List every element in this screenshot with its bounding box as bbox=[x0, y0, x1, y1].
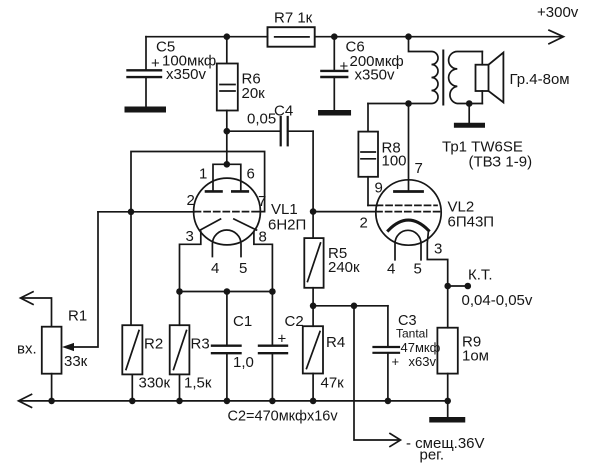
svg-text:вх.: вх. bbox=[17, 341, 37, 358]
svg-text:33к: 33к bbox=[64, 353, 88, 370]
ground bbox=[447, 401, 449, 417]
svg-text:9: 9 bbox=[375, 180, 383, 197]
svg-text:4: 4 bbox=[387, 261, 395, 278]
node C4 junction bbox=[224, 128, 231, 135]
resistor R7 bbox=[268, 27, 315, 47]
svg-text:К.Т.: К.Т. bbox=[468, 267, 493, 284]
transformer Tr1 primary bbox=[409, 37, 439, 104]
svg-text:2: 2 bbox=[360, 215, 368, 232]
svg-text:7: 7 bbox=[258, 193, 266, 210]
svg-text:2: 2 bbox=[187, 192, 195, 209]
capacitor C2 bbox=[271, 292, 273, 346]
svg-text:1ом: 1ом bbox=[462, 348, 489, 365]
capacitor C1 bbox=[226, 292, 228, 346]
resistor R3 bbox=[179, 292, 181, 326]
svg-text:+300v: +300v bbox=[537, 4, 579, 21]
svg-text:R7 1к: R7 1к bbox=[274, 10, 313, 27]
svg-text:1,5к: 1,5к bbox=[184, 375, 212, 392]
svg-text:47к: 47к bbox=[321, 375, 345, 392]
svg-text:+: + bbox=[151, 55, 160, 72]
wire speaker top bbox=[481, 52, 483, 65]
capacitor C6 bbox=[331, 33, 338, 40]
svg-text:R1: R1 bbox=[68, 308, 87, 325]
potentiometer R1 bbox=[42, 327, 62, 374]
svg-text:(ТВЗ 1-9): (ТВЗ 1-9) bbox=[469, 154, 533, 171]
node arrow +300v bbox=[549, 30, 564, 44]
svg-text:20к: 20к bbox=[242, 85, 266, 102]
wire bias rail bbox=[313, 305, 388, 307]
svg-text:100: 100 bbox=[382, 153, 407, 170]
capacitor C3 bbox=[387, 306, 389, 347]
speaker Гр bbox=[476, 65, 489, 91]
wire VL1 cathode pin 8 bbox=[254, 232, 273, 292]
svg-text:рег.: рег. bbox=[420, 447, 445, 464]
svg-text:6П43П: 6П43П bbox=[448, 214, 495, 231]
wire speaker bottom bbox=[481, 91, 483, 104]
tube VL1 envelope bbox=[194, 178, 261, 245]
ground bbox=[128, 107, 164, 113]
resistor R9 bbox=[447, 286, 449, 328]
svg-text:1: 1 bbox=[199, 166, 207, 183]
resistor R6 bbox=[224, 33, 231, 40]
svg-text:R4: R4 bbox=[326, 334, 345, 351]
capacitor C4 bbox=[227, 130, 280, 132]
svg-text:C2=470мкфх16v: C2=470мкфх16v bbox=[228, 409, 339, 425]
node K.T. test point bbox=[448, 285, 468, 287]
tube VL1 grid (dashed) bbox=[195, 211, 260, 213]
ground bbox=[456, 123, 482, 128]
tube VL1 cathodes bbox=[200, 219, 220, 230]
wire grid node down to R1 wiper bbox=[68, 212, 98, 347]
svg-text:R3: R3 bbox=[191, 336, 210, 353]
svg-text:1,0: 1,0 bbox=[233, 354, 254, 371]
svg-text:240к: 240к bbox=[328, 259, 360, 276]
wire input arrow top bbox=[22, 298, 52, 327]
ground bbox=[321, 110, 349, 116]
svg-text:5: 5 bbox=[239, 260, 247, 277]
tube VL1 anode bracket pins 1,6 bbox=[213, 164, 241, 190]
svg-text:4: 4 bbox=[211, 260, 219, 277]
resistor R4 bbox=[312, 306, 314, 326]
svg-text:5: 5 bbox=[414, 261, 422, 278]
node junction primary/anode bbox=[405, 33, 412, 40]
svg-text:+: + bbox=[278, 331, 287, 348]
svg-text:+: + bbox=[392, 354, 400, 369]
svg-text:х350v: х350v bbox=[355, 67, 396, 84]
tube VL2 envelope bbox=[376, 180, 441, 245]
wire cathode rail bbox=[180, 291, 273, 293]
node wiper arrow bbox=[62, 343, 74, 351]
svg-text:Гр.4-8ом: Гр.4-8ом bbox=[510, 71, 570, 88]
svg-text:R2: R2 bbox=[144, 336, 163, 353]
svg-text:C1: C1 bbox=[233, 313, 252, 330]
svg-text:х350v: х350v bbox=[166, 66, 207, 83]
wire C4 to VL2 grid bbox=[312, 131, 314, 211]
tube VL2 screen grid (pin 9) bbox=[377, 204, 438, 206]
tube VL2 cathode bbox=[388, 220, 428, 230]
svg-text:VL1: VL1 bbox=[271, 201, 298, 218]
transformer core bbox=[442, 51, 444, 105]
svg-text:7: 7 bbox=[415, 160, 423, 177]
svg-text:6: 6 bbox=[247, 166, 255, 183]
svg-text:47мкф: 47мкф bbox=[401, 340, 441, 355]
tube VL2 control grid (pin 2) bbox=[376, 211, 440, 213]
tube VL1 heater pins 4,5 bbox=[212, 230, 241, 257]
svg-text:3: 3 bbox=[186, 228, 194, 245]
capacitor C5 bbox=[145, 37, 147, 71]
wire bottom ground rail bbox=[20, 400, 448, 402]
node secondary ground junction bbox=[466, 100, 473, 107]
svg-text:C4: C4 bbox=[274, 103, 293, 120]
wire VL2 cathode pin 3 to K.T. bbox=[427, 230, 447, 286]
transformer Tr1 secondary bbox=[449, 52, 483, 104]
svg-text:Tantal: Tantal bbox=[396, 327, 428, 341]
wire top +300v rail bbox=[146, 36, 268, 38]
wire VL2 grid to R5/C4 bbox=[313, 211, 376, 213]
svg-text:8: 8 bbox=[259, 229, 267, 246]
svg-text:x63v: x63v bbox=[409, 354, 437, 369]
tube VL1 anode wire bbox=[226, 131, 228, 164]
wire bias feed -smeshch bbox=[354, 306, 398, 440]
wire VL1 cathode pin 3 bbox=[180, 232, 201, 292]
resistor R5 bbox=[312, 212, 314, 239]
svg-text:330к: 330к bbox=[139, 374, 171, 391]
tube VL2 heater pins 4,5 bbox=[395, 230, 421, 259]
svg-text:0,04-0,05v: 0,04-0,05v bbox=[462, 292, 533, 309]
svg-text:+: + bbox=[340, 58, 349, 75]
resistor R2 bbox=[122, 325, 142, 374]
wire grid box top bbox=[131, 152, 265, 325]
resistor R8 bbox=[368, 103, 409, 105]
svg-text:6Н2П: 6Н2П bbox=[268, 217, 306, 234]
tube VL2 anode lead pin 7 bbox=[408, 104, 410, 191]
svg-text:- смещ.36V: - смещ.36V bbox=[406, 435, 485, 452]
wire VL1 pin2 to grid node bbox=[98, 211, 195, 213]
tube VL2 anode plate bbox=[395, 190, 423, 193]
svg-text:0,05: 0,05 bbox=[247, 111, 276, 128]
svg-text:3: 3 bbox=[434, 241, 442, 258]
svg-text:C2: C2 bbox=[285, 313, 304, 330]
